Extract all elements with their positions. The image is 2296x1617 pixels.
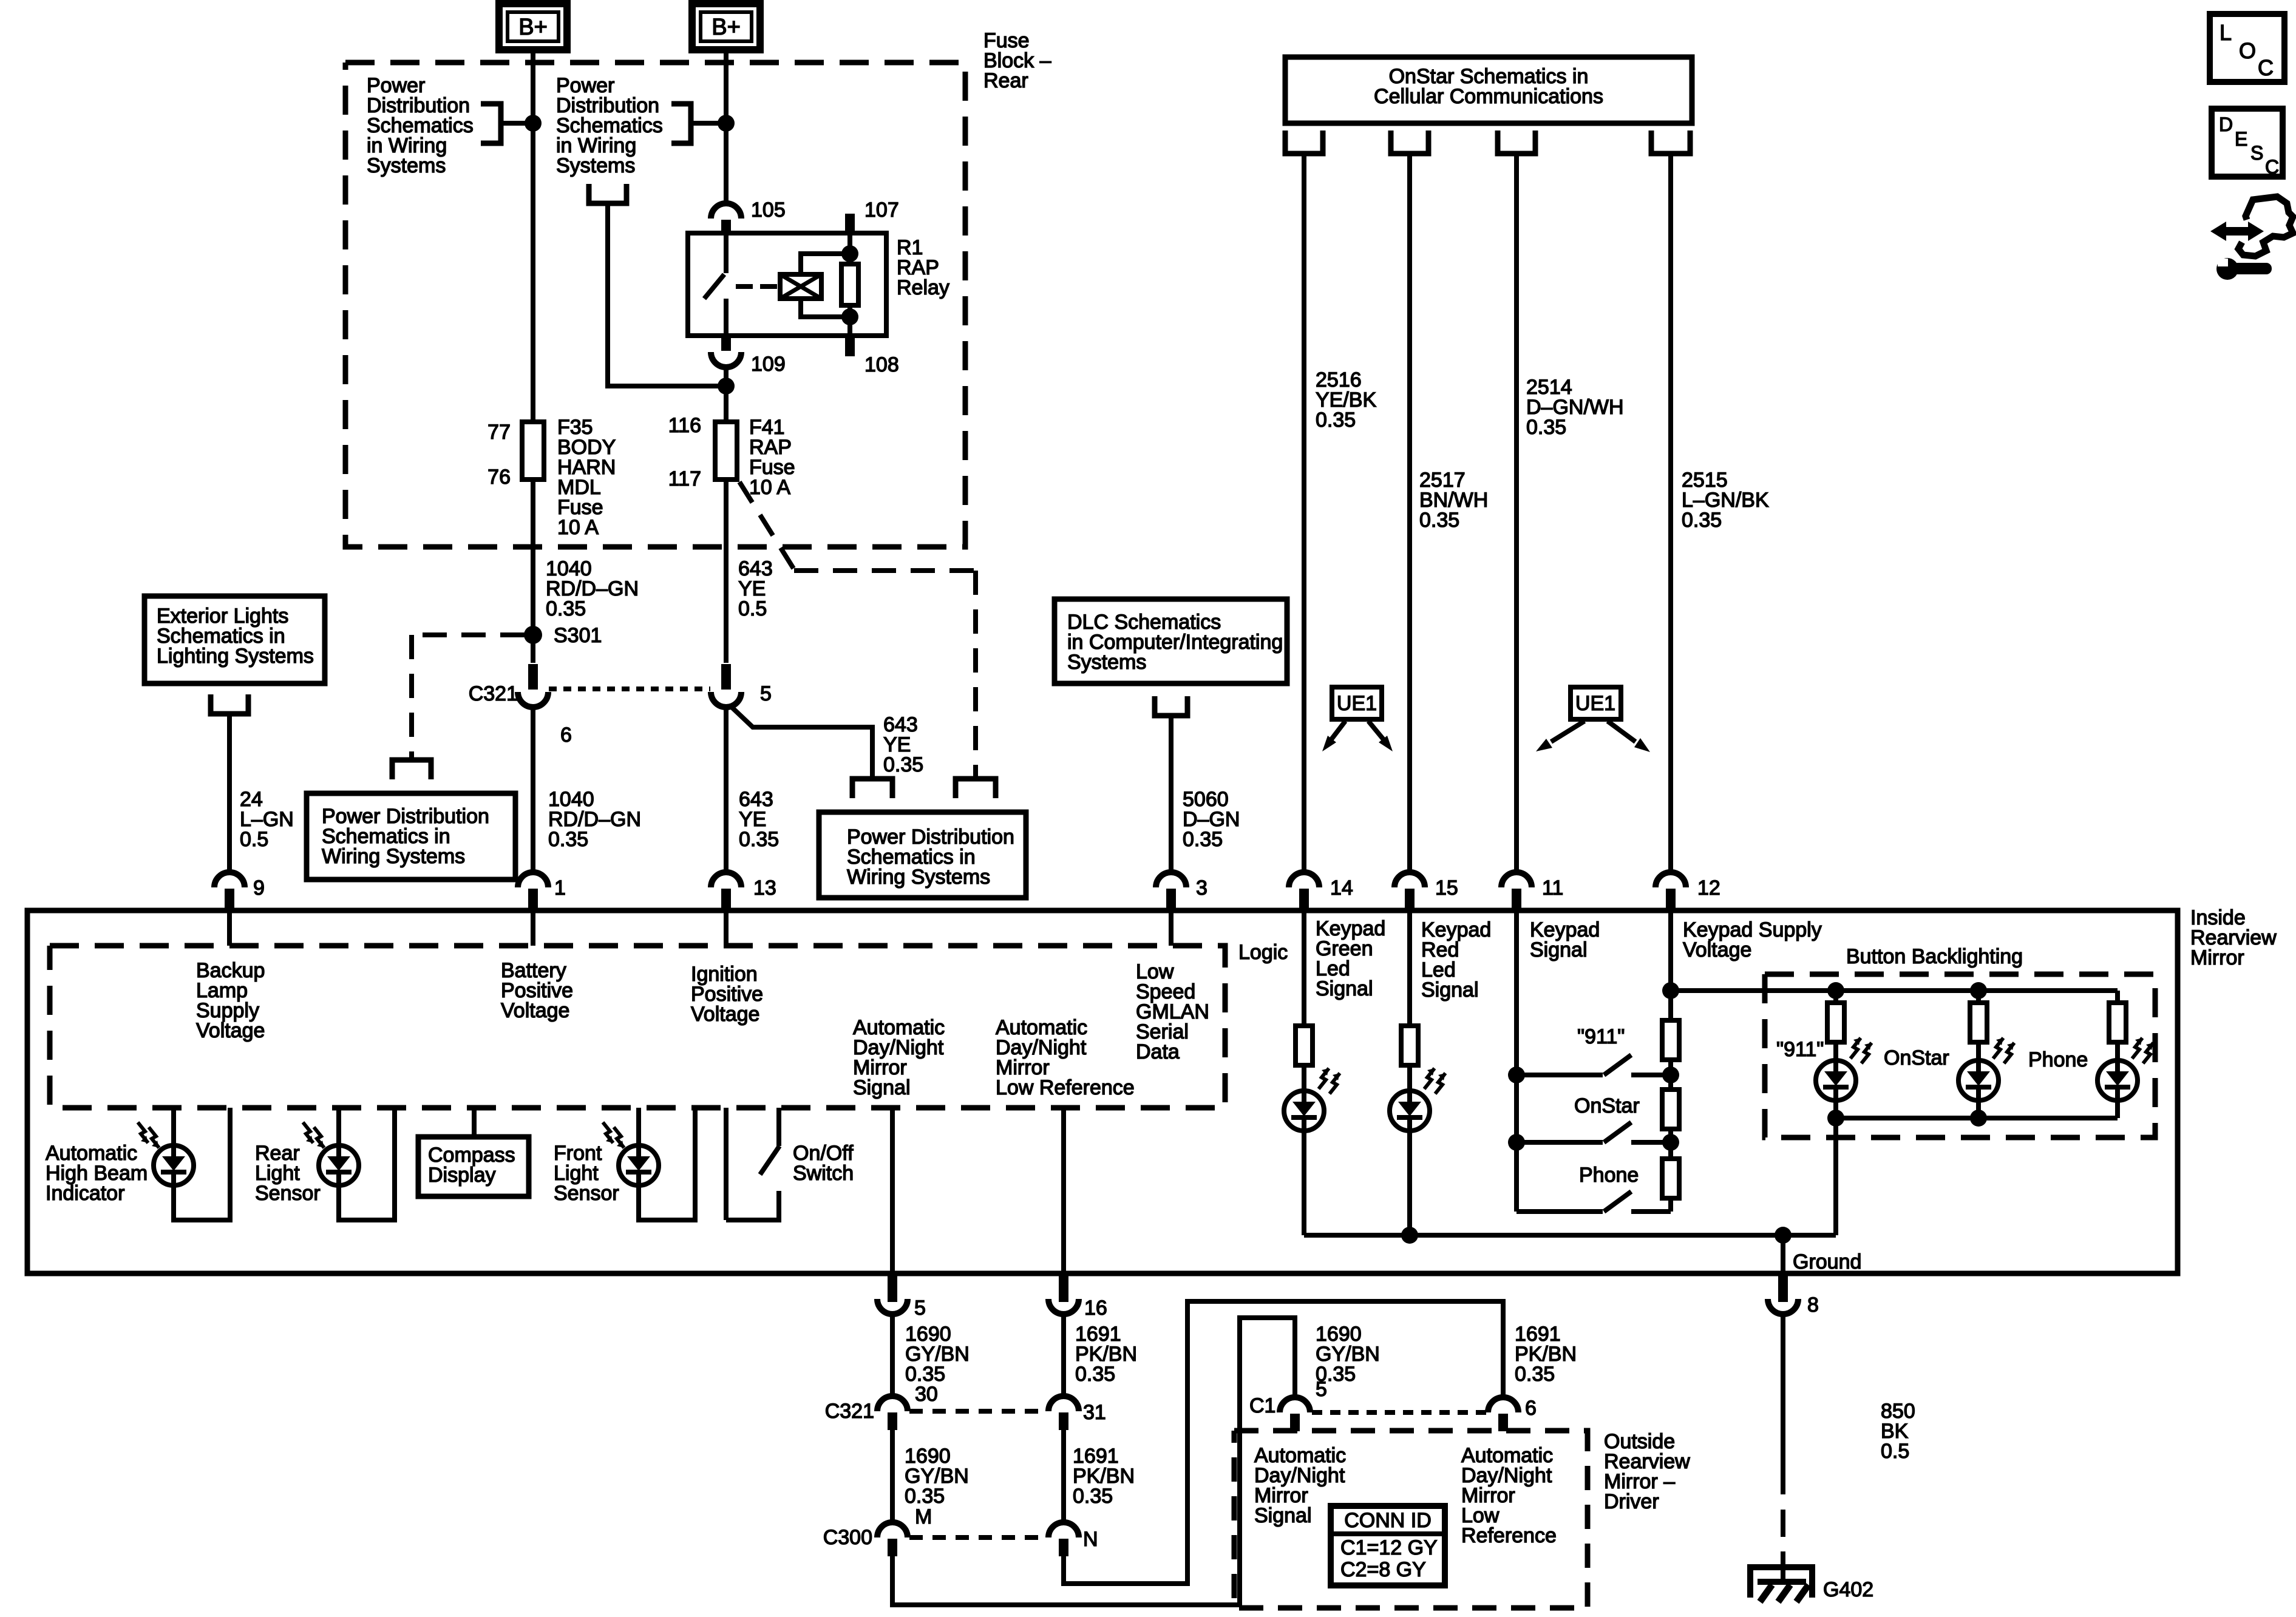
svg-text:D: D: [2219, 114, 2233, 135]
svg-text:0.35: 0.35: [1183, 828, 1223, 851]
backlight OnStar LED: [1976, 1042, 1981, 1060]
B+ terminal 2: [692, 4, 760, 50]
svg-text:Voltage: Voltage: [196, 1019, 265, 1042]
node ground rail / keypad red led: [1401, 1227, 1418, 1244]
wire relay 109 to F41: [724, 367, 729, 422]
in-line connector C300 pin M: [877, 1522, 908, 1537]
svg-text:30: 30: [915, 1383, 938, 1406]
svg-text:Sensor: Sensor: [554, 1182, 619, 1205]
svg-text:105: 105: [751, 198, 786, 222]
in-line connector C321 pin 30: [877, 1396, 908, 1411]
wire 1690 GY/BN upper: [890, 1314, 895, 1397]
svg-text:OnStar: OnStar: [1884, 1046, 1949, 1070]
svg-text:0.35: 0.35: [883, 753, 923, 776]
svg-text:Reference: Reference: [1461, 1524, 1557, 1547]
svg-text:Systems: Systems: [556, 154, 635, 177]
in-line connector C321 pin 31: [1048, 1396, 1079, 1411]
connector pin 5 (bottom): [888, 1273, 897, 1302]
svg-text:C2=8 GY: C2=8 GY: [1340, 1558, 1426, 1581]
fuse F35 BODY HARN MDL 10A: [522, 422, 544, 480]
on/off switch: [724, 1108, 729, 1220]
onstar connector tab 4: [1651, 131, 1690, 154]
exterior lights schematics box: [144, 596, 325, 683]
page reference cap above power distribution box left: [392, 760, 431, 779]
svg-text:E: E: [2235, 128, 2247, 150]
power distribution schematics box (right): [819, 812, 1026, 898]
backlight 911 LED: [1833, 1042, 1838, 1060]
svg-text:Button Backlighting: Button Backlighting: [1846, 945, 2023, 968]
B+ terminal 1: [499, 4, 567, 50]
node keypad supply tap: [1662, 982, 1679, 999]
svg-text:0.35: 0.35: [1419, 509, 1459, 532]
svg-text:Signal: Signal: [1316, 977, 1373, 1000]
svg-text:0.35: 0.35: [1075, 1363, 1115, 1386]
svg-text:Wiring Systems: Wiring Systems: [847, 866, 990, 889]
relay coil (crossed box): [780, 274, 821, 299]
svg-text:C321: C321: [469, 682, 518, 705]
svg-text:0.5: 0.5: [738, 597, 767, 620]
wire 2517 BN/WH: [1407, 154, 1412, 873]
pin 108 stub: [845, 334, 855, 356]
onstar connector tab 1: [1285, 131, 1323, 154]
svg-text:117: 117: [668, 467, 701, 490]
svg-text:109: 109: [751, 353, 786, 376]
resistor keypad ladder 3: [1662, 1159, 1679, 1198]
wire C300 N to outside mirror (route): [1064, 1301, 1503, 1584]
resistor keypad red led: [1407, 912, 1412, 1026]
connector pin 16 (bottom): [1059, 1273, 1068, 1302]
adjust icon wrench: [2216, 258, 2238, 280]
svg-text:Signal: Signal: [1421, 978, 1479, 1002]
svg-text:Logic: Logic: [1238, 941, 1288, 964]
svg-text:0.5: 0.5: [240, 828, 268, 851]
in-line connector C321 pin 5 (ignition feed): [721, 664, 731, 690]
svg-text:6: 6: [560, 724, 572, 747]
wire 1040 RD/D-GN upper: [531, 480, 535, 635]
svg-text:5: 5: [914, 1297, 926, 1320]
svg-text:B+: B+: [518, 15, 548, 40]
svg-text:G402: G402: [1823, 1578, 1873, 1601]
connector pin 109: [721, 334, 731, 351]
wire 2515 L-GN/BK: [1668, 154, 1673, 873]
wire 850 BK upper: [1781, 1314, 1785, 1494]
resistor backlight 911: [1827, 982, 1844, 999]
svg-text:77: 77: [487, 421, 511, 444]
svg-text:11: 11: [1542, 876, 1563, 900]
connector dashes C321 bottom: [909, 1409, 1047, 1414]
svg-text:OnStar: OnStar: [1574, 1094, 1640, 1117]
svg-text:0.35: 0.35: [1073, 1485, 1113, 1508]
page reference cup under exterior lights box: [211, 694, 248, 714]
svg-text:13: 13: [753, 876, 776, 900]
svg-text:C300: C300: [823, 1526, 872, 1549]
wire keypad supply column with resistors: [1668, 912, 1673, 1020]
connector pin 12: [1656, 872, 1686, 887]
page reference cup under DLC box: [1155, 696, 1187, 716]
dotted connector line C321 top: [549, 686, 710, 691]
resistor backlight Phone: [2115, 991, 2120, 1003]
svg-text:0.35: 0.35: [546, 597, 586, 620]
relay suppression resistor: [841, 264, 858, 305]
wire coil to pin 108 branch: [801, 299, 850, 317]
connector pin 105: [711, 203, 741, 219]
ground G402: [1781, 1551, 1785, 1583]
resistor keypad ladder 1: [1662, 1020, 1679, 1060]
svg-text:C1: C1: [1249, 1394, 1275, 1417]
svg-text:UE1: UE1: [1575, 692, 1615, 715]
adjust icon hand outline: [2238, 197, 2293, 256]
svg-text:Systems: Systems: [1067, 651, 1146, 674]
svg-text:C321: C321: [825, 1400, 874, 1423]
wire internal ground rail: [1304, 1233, 1836, 1238]
svg-text:31: 31: [1083, 1401, 1106, 1424]
svg-text:6: 6: [1525, 1397, 1537, 1420]
reference bracket to ignition feed: [671, 104, 691, 143]
svg-text:Phone: Phone: [2028, 1048, 2088, 1071]
wire 2514 D-GN/WH: [1514, 154, 1519, 873]
in-line connector C300 pin N: [1048, 1522, 1079, 1537]
wire 643 YE lower: [724, 707, 729, 873]
onstar connector tab 2: [1391, 131, 1428, 154]
svg-text:0.35: 0.35: [1316, 408, 1356, 432]
svg-text:1: 1: [554, 876, 566, 900]
wire automatic day/night mirror low reference (internal): [1061, 1108, 1066, 1273]
node splice on battery feed: [525, 115, 542, 132]
svg-text:Signal: Signal: [853, 1076, 911, 1099]
svg-text:116: 116: [668, 414, 701, 437]
svg-text:16: 16: [1084, 1297, 1107, 1320]
rear light sensor LED: [336, 1108, 341, 1145]
resistor keypad ladder 2: [1662, 1090, 1679, 1129]
svg-text:Rear: Rear: [983, 69, 1028, 92]
DLC schematics box: [1055, 599, 1287, 683]
LOC legend box: [2210, 14, 2284, 82]
svg-text:Data: Data: [1136, 1040, 1180, 1063]
keypad red LED: [1407, 1065, 1412, 1091]
wire pin 13 into logic: [724, 910, 729, 946]
svg-text:Sensor: Sensor: [255, 1182, 321, 1205]
svg-text:C1=12 GY: C1=12 GY: [1340, 1536, 1438, 1559]
svg-text:76: 76: [487, 466, 511, 489]
svg-text:0.5: 0.5: [1881, 1440, 1909, 1463]
connector pin 1: [518, 872, 548, 887]
svg-text:O: O: [2239, 38, 2256, 63]
wire 1691 PK/BN lower: [1061, 1430, 1066, 1523]
svg-text:Cellular Communications: Cellular Communications: [1374, 85, 1603, 108]
relay contact: [724, 233, 729, 273]
onstar schematics box: [1285, 57, 1692, 123]
wire 1040 RD/D-GN lower: [531, 707, 535, 873]
connector pin 15: [1394, 872, 1425, 887]
page reference cup under second label: [589, 184, 627, 203]
wire 2516 YE/BK: [1302, 154, 1306, 873]
pin 107 stub: [845, 214, 855, 234]
wire automatic day/night mirror signal (internal): [890, 1108, 895, 1273]
svg-text:N: N: [1083, 1528, 1098, 1551]
wire ground to pin 8: [1781, 1235, 1785, 1273]
wire keypad signal column: [1514, 912, 1519, 1212]
page reference cap above power distribution box right (solid): [852, 779, 892, 798]
wire from reference cup to RAP relay output node: [608, 203, 726, 386]
svg-text:0.35: 0.35: [905, 1485, 945, 1508]
wire 24 L-GN: [227, 714, 232, 873]
svg-text:Driver: Driver: [1604, 1490, 1659, 1513]
connector pin 8 (bottom): [1778, 1273, 1788, 1302]
backlight Phone LED: [2115, 1042, 2120, 1060]
svg-text:0.35: 0.35: [1526, 416, 1566, 439]
page reference cap above power distribution box right (dashed target): [956, 779, 996, 798]
switch Phone: [1517, 1209, 1603, 1214]
svg-text:0.35: 0.35: [548, 828, 588, 851]
wire coil to pin 107 branch: [801, 254, 850, 274]
svg-text:14: 14: [1330, 876, 1353, 900]
svg-text:9: 9: [253, 876, 265, 900]
node OnStar row: [1508, 1134, 1525, 1151]
harness reference UE1 (left): [1332, 687, 1382, 719]
svg-text:Switch: Switch: [793, 1162, 854, 1185]
dashed branch from S301 to power distribution reference: [419, 632, 525, 637]
svg-text:5: 5: [1316, 1378, 1327, 1401]
connector dashes C300: [909, 1535, 1047, 1540]
resistor backlight OnStar: [1970, 982, 1987, 999]
svg-text:Relay: Relay: [897, 276, 949, 299]
node junction at relay output: [718, 378, 735, 395]
wire pin 1 into logic: [531, 910, 535, 946]
svg-text:0.35: 0.35: [739, 828, 779, 851]
wire keypad supply rail: [1671, 988, 2118, 993]
inside rearview mirror module box: [27, 910, 2178, 1273]
svg-text:CONN ID: CONN ID: [1344, 1509, 1432, 1532]
front light sensor LED: [636, 1108, 641, 1145]
svg-text:107: 107: [864, 198, 899, 222]
svg-text:S: S: [2250, 142, 2263, 164]
wire 643 branch to power distribution box: [730, 705, 872, 779]
svg-text:C: C: [2258, 55, 2274, 80]
switch OnStar: [1517, 1140, 1603, 1145]
svg-text:Lighting Systems: Lighting Systems: [157, 645, 314, 668]
keypad green LED: [1302, 1065, 1306, 1091]
svg-text:10 A: 10 A: [557, 516, 599, 539]
mirror internal logic dashed box: [50, 946, 1225, 1108]
svg-text:Voltage: Voltage: [501, 999, 569, 1022]
svg-text:UE1: UE1: [1337, 692, 1377, 715]
svg-text:M: M: [915, 1505, 932, 1528]
wire backlight cathode rail: [1836, 1116, 2118, 1120]
svg-text:L: L: [2220, 20, 2232, 45]
wire backlight ground drop: [1833, 1118, 1838, 1235]
svg-text:Phone: Phone: [1579, 1164, 1639, 1187]
svg-text:12: 12: [1697, 876, 1720, 900]
connector pin 14: [1289, 872, 1319, 887]
wire battery feed B+ to F35: [531, 50, 535, 422]
connector dashes C1: [1312, 1410, 1486, 1415]
node splice on ignition feed: [718, 115, 735, 132]
connector C1 pin 6: [1488, 1397, 1518, 1412]
fuse F41 RAP 10A: [715, 422, 737, 480]
resistor keypad green led: [1302, 912, 1306, 1026]
svg-text:Mirror: Mirror: [2190, 946, 2244, 969]
in-line connector C321 pin 6 (battery feed): [531, 635, 535, 663]
switch 911: [1517, 1073, 1603, 1077]
wire 5060 D-GN: [1169, 716, 1173, 873]
svg-text:Wiring Systems: Wiring Systems: [322, 845, 465, 868]
svg-text:Systems: Systems: [367, 154, 446, 177]
svg-text:Voltage: Voltage: [1683, 938, 1751, 961]
svg-text:0.35: 0.35: [1682, 509, 1722, 532]
svg-text:"911": "911": [1776, 1038, 1824, 1061]
compass display box: [472, 1108, 477, 1137]
relay R1 box: [688, 233, 886, 336]
onstar connector tab 3: [1498, 131, 1535, 154]
svg-text:S301: S301: [554, 624, 602, 647]
wire 643 YE upper: [724, 480, 729, 663]
svg-text:Signal: Signal: [1254, 1504, 1312, 1527]
svg-text:5: 5: [760, 682, 772, 705]
wire C300 M to outside mirror (route): [892, 1318, 1295, 1605]
node coil/resistor bottom: [841, 308, 858, 325]
svg-text:0.35: 0.35: [1515, 1363, 1555, 1386]
svg-text:8: 8: [1807, 1293, 1819, 1317]
svg-text:Low Reference: Low Reference: [996, 1076, 1135, 1099]
DESC legend box: [2212, 109, 2283, 177]
wire 1690 GY/BN lower: [890, 1430, 895, 1523]
svg-text:Signal: Signal: [1530, 938, 1588, 961]
connector pin 11: [1501, 872, 1532, 887]
connector pin 9: [214, 872, 245, 887]
automatic high beam indicator LED: [171, 1108, 176, 1145]
node ground rail / ground pin: [1775, 1227, 1792, 1244]
svg-text:Indicator: Indicator: [46, 1182, 124, 1205]
svg-text:15: 15: [1435, 876, 1458, 900]
fuse block - rear dashed outline: [345, 63, 965, 547]
svg-text:"911": "911": [1577, 1025, 1625, 1048]
node coil/resistor top: [841, 245, 858, 262]
dashed reference path from F41 to power distribution box: [739, 482, 794, 569]
svg-text:3: 3: [1196, 876, 1207, 900]
svg-text:10 A: 10 A: [749, 476, 790, 499]
wire B+ 2 to relay pin 105: [724, 50, 729, 204]
svg-text:C: C: [2265, 156, 2279, 178]
connector pin 13: [711, 872, 741, 887]
adjust icon arrow: [2210, 222, 2264, 241]
svg-text:108: 108: [864, 353, 899, 376]
reference bracket to battery feed: [481, 104, 501, 143]
connector C1 pin 5: [1280, 1397, 1310, 1412]
button backlighting dashed box: [1765, 974, 2155, 1137]
svg-text:B+: B+: [712, 15, 741, 40]
wire pin 9 into logic: [227, 910, 232, 946]
CONN ID table: [1331, 1506, 1445, 1585]
node 911 row: [1508, 1066, 1525, 1083]
svg-text:Display: Display: [428, 1164, 495, 1187]
power distribution schematics box (left): [307, 793, 515, 880]
harness reference UE1 (right): [1571, 687, 1621, 719]
svg-text:Voltage: Voltage: [691, 1003, 759, 1026]
svg-text:Ground: Ground: [1793, 1250, 1861, 1273]
wire pin 3 into logic: [1169, 910, 1173, 946]
wire 1691 PK/BN upper: [1061, 1314, 1066, 1397]
wire 850 BK dashed section: [1781, 1510, 1785, 1537]
relay coil dashed actuator link: [736, 284, 753, 289]
connector pin 3: [1156, 872, 1186, 887]
outside rearview mirror dashed box: [1234, 1431, 1588, 1608]
splice S301: [524, 626, 542, 644]
